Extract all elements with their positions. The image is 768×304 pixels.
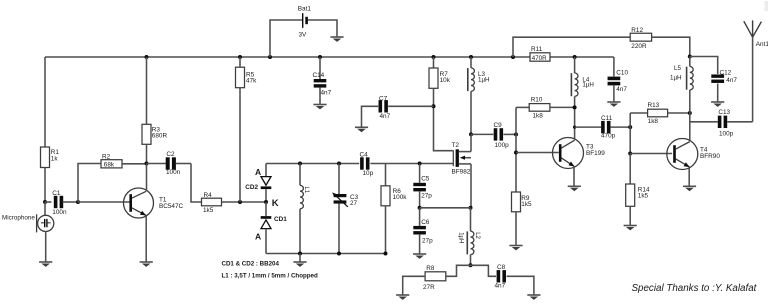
svg-text:1k5: 1k5 xyxy=(521,201,532,208)
svg-text:4n7: 4n7 xyxy=(495,282,506,289)
wire R6 top lead xyxy=(385,164,387,186)
node C14 rail tap xyxy=(318,55,322,59)
ground battery xyxy=(330,37,343,42)
wire L2 to R8 xyxy=(446,265,471,276)
node T4 base xyxy=(628,152,632,156)
wire T2 source lead xyxy=(470,164,472,208)
resistor R9 xyxy=(512,192,533,212)
svg-text:100n: 100n xyxy=(166,169,181,176)
wire supply branch xyxy=(513,37,630,57)
wire L2 to C8 xyxy=(471,265,497,276)
wire +3V supply rail xyxy=(45,56,614,58)
svg-text:BF199: BF199 xyxy=(586,150,605,157)
note varactor type xyxy=(222,260,280,267)
wire CD2 to K xyxy=(265,189,267,202)
node K xyxy=(264,198,279,209)
wire R4 to K node xyxy=(222,201,267,203)
wire R6 bottom lead xyxy=(385,206,387,254)
inductor L5 xyxy=(670,65,693,90)
ground T3 emitter xyxy=(568,186,581,191)
svg-text:Special Thanks to :Y. Kalafat: Special Thanks to :Y. Kalafat xyxy=(632,283,758,294)
svg-text:Microphone: Microphone xyxy=(2,214,35,221)
node L5 top xyxy=(688,55,692,59)
ground C7 xyxy=(355,127,368,132)
svg-text:27: 27 xyxy=(350,200,358,207)
svg-text:100p: 100p xyxy=(719,130,734,137)
wire battery left lead xyxy=(270,20,302,57)
svg-text:C5: C5 xyxy=(421,175,430,182)
svg-text:68k: 68k xyxy=(104,162,115,169)
svg-text:Bat1: Bat1 xyxy=(298,6,312,13)
svg-text:1µH: 1µH xyxy=(457,232,463,243)
svg-text:R12: R12 xyxy=(631,27,643,34)
svg-text:R13: R13 xyxy=(648,102,660,109)
svg-text:L1: L1 xyxy=(303,187,309,194)
svg-text:C8: C8 xyxy=(497,264,506,271)
varactor CD2 xyxy=(245,167,271,191)
wire L2 top lead xyxy=(470,208,472,231)
wire R5 bottom lead xyxy=(239,88,241,202)
node T2 source xyxy=(469,206,473,210)
ground tank xyxy=(293,262,306,267)
resistor R6 xyxy=(381,186,407,206)
wire varactor top lead xyxy=(265,164,267,177)
resistor R2 xyxy=(101,153,122,168)
wire R7 to gate2 xyxy=(434,88,453,150)
wire T1 emitter to ground xyxy=(145,216,147,262)
svg-text:C9: C9 xyxy=(494,122,503,129)
wire L1 bottom lead xyxy=(299,209,301,254)
wire left column top xyxy=(44,57,46,147)
svg-text:R2: R2 xyxy=(102,153,111,160)
battery Bat1 xyxy=(298,6,312,39)
wire C10 to ground xyxy=(613,86,615,102)
wire mic to ground xyxy=(45,232,47,263)
svg-text:100p: 100p xyxy=(495,142,510,149)
wire divider to source xyxy=(420,207,471,209)
ground R8 xyxy=(396,295,409,300)
capacitor C14 xyxy=(313,72,332,96)
capacitor C10 xyxy=(608,70,629,93)
wire R1 to audio node xyxy=(44,168,46,203)
artifact smudge xyxy=(765,1,768,11)
node L1 top xyxy=(298,162,302,166)
node source divider xyxy=(418,206,422,210)
svg-text:10p: 10p xyxy=(363,170,374,177)
resistor R12 xyxy=(630,27,651,50)
wire R9 to ground xyxy=(515,212,517,246)
resistor R11 xyxy=(530,46,550,62)
node C7 tap xyxy=(432,104,436,108)
node C11 tap xyxy=(573,126,576,129)
trimmer capacitor C3 xyxy=(332,192,358,207)
wire T3 base lead xyxy=(516,152,559,154)
svg-text:R10: R10 xyxy=(531,96,543,103)
capacitor C8 xyxy=(495,264,507,289)
svg-text:Ant1: Ant1 xyxy=(756,41,768,48)
wire L1 top lead xyxy=(299,164,301,186)
wire T4 base column xyxy=(629,113,631,154)
wire T4 base lead xyxy=(630,153,672,155)
node L3 rail tap xyxy=(469,55,473,59)
svg-text:C14: C14 xyxy=(313,72,325,79)
svg-text:L1 : 3,5T / 1mm / 5mm / Choppe: L1 : 3,5T / 1mm / 5mm / Chopped xyxy=(222,272,318,279)
transistor T2 BF982 xyxy=(452,142,472,175)
wire R8 to ground xyxy=(403,276,425,295)
wire C5 top lead xyxy=(419,164,421,183)
wire R2 to collector node xyxy=(122,163,147,165)
wire C14 top lead xyxy=(319,57,321,79)
ground C10 xyxy=(607,102,620,107)
wire T4 emitter to ground xyxy=(688,168,690,186)
svg-text:A: A xyxy=(255,167,261,177)
node supply branch tap xyxy=(511,55,515,59)
node L4 rail tap xyxy=(573,55,577,59)
ground R9 xyxy=(509,246,522,251)
svg-text:T2: T2 xyxy=(452,142,460,149)
wire K to CD1 xyxy=(265,202,267,216)
node L2 bottom xyxy=(469,263,473,267)
svg-text:BF982: BF982 xyxy=(452,169,471,176)
resistor R3 xyxy=(142,124,167,144)
inductor L3 xyxy=(468,68,490,91)
resistor R13 xyxy=(630,102,690,125)
capacitor C2 xyxy=(147,151,192,176)
wire R5 top lead xyxy=(239,57,241,67)
svg-text:4n7: 4n7 xyxy=(616,86,627,93)
svg-text:BFR90: BFR90 xyxy=(700,153,720,160)
svg-text:100n: 100n xyxy=(52,209,67,216)
svg-text:C10: C10 xyxy=(616,70,628,77)
node C3 bottom xyxy=(337,252,341,256)
svg-text:L2: L2 xyxy=(474,232,480,239)
svg-text:C6: C6 xyxy=(421,219,430,226)
svg-text:R8: R8 xyxy=(426,265,435,272)
capacitor C13 xyxy=(690,109,753,137)
node R5 rail tap xyxy=(238,55,242,59)
wire C10 top lead xyxy=(613,57,615,76)
svg-text:CD1: CD1 xyxy=(274,216,287,223)
wire C5 to source node xyxy=(419,191,421,208)
svg-text:BC547C: BC547C xyxy=(159,203,184,210)
svg-text:C12: C12 xyxy=(720,70,732,77)
node C3 top xyxy=(337,162,341,166)
wire C3 top lead xyxy=(338,164,340,195)
capacitor C1 xyxy=(45,190,78,216)
wire R2 branch xyxy=(78,164,101,203)
wire T3 base column xyxy=(515,107,517,192)
node C11 out xyxy=(628,125,632,129)
wire C12 to ground xyxy=(717,84,719,103)
ground C14 xyxy=(313,105,326,110)
resistor R8 xyxy=(423,265,446,291)
wire L3 bottom lead xyxy=(470,91,472,134)
node R6 bottom xyxy=(384,252,388,256)
svg-text:27R: 27R xyxy=(423,284,435,291)
inductor L4 xyxy=(571,73,593,96)
ground microphone xyxy=(39,262,52,267)
capacitor C9 xyxy=(471,122,516,149)
svg-text:1µH: 1µH xyxy=(670,74,681,81)
ground T1 emitter xyxy=(140,262,153,267)
antenna Ant1 xyxy=(744,20,768,48)
wire C14 to ground xyxy=(319,87,321,104)
svg-text:C7: C7 xyxy=(379,95,388,102)
wire battery right lead xyxy=(308,20,337,37)
node L1 bottom xyxy=(298,252,302,256)
note credit xyxy=(632,283,758,294)
svg-text:A: A xyxy=(255,231,261,241)
resistor R4 xyxy=(202,192,222,214)
wire L4 top lead xyxy=(574,57,576,73)
wire CD1 to tank bottom xyxy=(265,229,267,254)
svg-text:4n7: 4n7 xyxy=(726,77,737,84)
wire C6 to ground xyxy=(419,234,421,254)
svg-text:27p: 27p xyxy=(422,238,433,245)
note L1 spec xyxy=(222,272,318,279)
wire R3 top lead xyxy=(146,57,148,124)
node audio input xyxy=(43,200,47,204)
resistor R10 xyxy=(516,96,575,119)
svg-text:L5: L5 xyxy=(674,65,681,72)
capacitor C6 xyxy=(413,219,433,245)
svg-text:C4: C4 xyxy=(360,152,369,159)
wire R14 to ground xyxy=(629,206,631,225)
wire R12 to L5 xyxy=(652,37,690,56)
wire L5 top lead xyxy=(689,57,691,67)
node C9 out xyxy=(514,132,518,136)
node T2 drain net xyxy=(469,132,473,136)
inductor L2 xyxy=(457,231,480,254)
svg-text:1µH: 1µH xyxy=(582,82,593,89)
svg-text:470p: 470p xyxy=(601,132,616,139)
wire C8 to ground xyxy=(507,276,534,295)
wire L5 to T4 collector xyxy=(689,90,691,141)
resistor R1 xyxy=(41,147,60,168)
capacitor C7 xyxy=(362,95,434,127)
wire tank top xyxy=(266,163,359,165)
wire C1 to T1 base xyxy=(78,201,131,203)
inductor L1 xyxy=(300,185,309,208)
wire R3 to collector node xyxy=(146,144,148,163)
node T1 collector xyxy=(145,162,149,166)
capacitor C4 xyxy=(360,152,374,177)
svg-text:C11: C11 xyxy=(601,115,613,122)
node R10 tap xyxy=(573,105,577,109)
resistor R7 xyxy=(429,68,451,88)
svg-text:C2: C2 xyxy=(166,151,175,158)
svg-text:1k: 1k xyxy=(51,156,59,163)
wire R14 top lead xyxy=(629,154,631,185)
svg-text:4n7: 4n7 xyxy=(321,90,332,97)
svg-text:R11: R11 xyxy=(531,46,543,53)
svg-text:470R: 470R xyxy=(532,55,547,62)
ground C8 xyxy=(527,295,540,300)
svg-text:10k: 10k xyxy=(440,77,451,84)
svg-text:1k8: 1k8 xyxy=(533,113,544,120)
transistor T1 BC547C xyxy=(124,188,184,218)
wire C4 to gate1 xyxy=(370,163,453,165)
wire antenna lead xyxy=(752,37,754,122)
svg-text:3V: 3V xyxy=(299,32,308,39)
ground T4 emitter xyxy=(683,186,696,191)
svg-text:27p: 27p xyxy=(421,193,432,200)
svg-text:R4: R4 xyxy=(204,192,213,199)
wire mic lead xyxy=(44,202,46,215)
svg-text:1µH: 1µH xyxy=(478,77,489,84)
wire tank bottom xyxy=(266,253,386,255)
svg-text:C1: C1 xyxy=(52,190,61,197)
node R7 rail tap xyxy=(432,55,436,59)
svg-text:1k5: 1k5 xyxy=(638,193,649,200)
svg-text:CD1 & CD2 : BB204: CD1 & CD2 : BB204 xyxy=(222,260,280,267)
svg-text:4n7: 4n7 xyxy=(380,113,391,120)
node R13 out xyxy=(688,111,692,115)
wire L2 bottom lead xyxy=(470,255,472,266)
wire R7 top lead xyxy=(433,57,435,68)
wire C3 bottom lead xyxy=(338,204,340,254)
transistor T4 BFR90 xyxy=(667,139,721,170)
node T3 base xyxy=(514,151,518,155)
svg-text:C13: C13 xyxy=(718,109,730,116)
node battery tap xyxy=(268,55,272,59)
wire L3 top lead xyxy=(470,57,472,68)
svg-text:100k: 100k xyxy=(393,194,408,201)
node T1 base net xyxy=(76,200,80,204)
node C5 tap xyxy=(418,162,422,166)
wire C2 to R4 xyxy=(191,164,202,203)
wire tank ground stub xyxy=(299,254,301,263)
ground C6 xyxy=(413,254,426,259)
wire T3 emitter to ground xyxy=(573,167,575,186)
ground R14 xyxy=(624,226,637,231)
node R5 bias tap xyxy=(238,200,242,204)
microphone MIC1 xyxy=(2,214,54,232)
transistor T3 BF199 xyxy=(553,138,606,169)
varactor CD1 xyxy=(255,216,287,241)
capacitor C12 xyxy=(711,70,737,85)
node R3 rail tap xyxy=(145,55,149,59)
capacitor C11 xyxy=(575,115,631,139)
svg-text:47k: 47k xyxy=(246,78,257,85)
wire L4 to T3 collector xyxy=(574,96,576,139)
svg-text:220R: 220R xyxy=(631,43,647,50)
wire T1 collector lead xyxy=(146,164,148,191)
svg-text:K: K xyxy=(272,198,279,209)
ground C12 xyxy=(711,102,724,107)
capacitor C5 xyxy=(413,175,432,199)
svg-text:1k8: 1k8 xyxy=(648,118,659,125)
resistor R5 xyxy=(236,67,258,88)
svg-text:CD2: CD2 xyxy=(245,184,258,191)
wire C6 top lead xyxy=(419,208,421,226)
wire C12 top lead xyxy=(690,57,718,75)
svg-text:1k5: 1k5 xyxy=(203,207,214,214)
svg-text:680R: 680R xyxy=(152,133,168,140)
wire T2 drain lead xyxy=(470,134,472,151)
resistor R14 xyxy=(626,184,650,206)
